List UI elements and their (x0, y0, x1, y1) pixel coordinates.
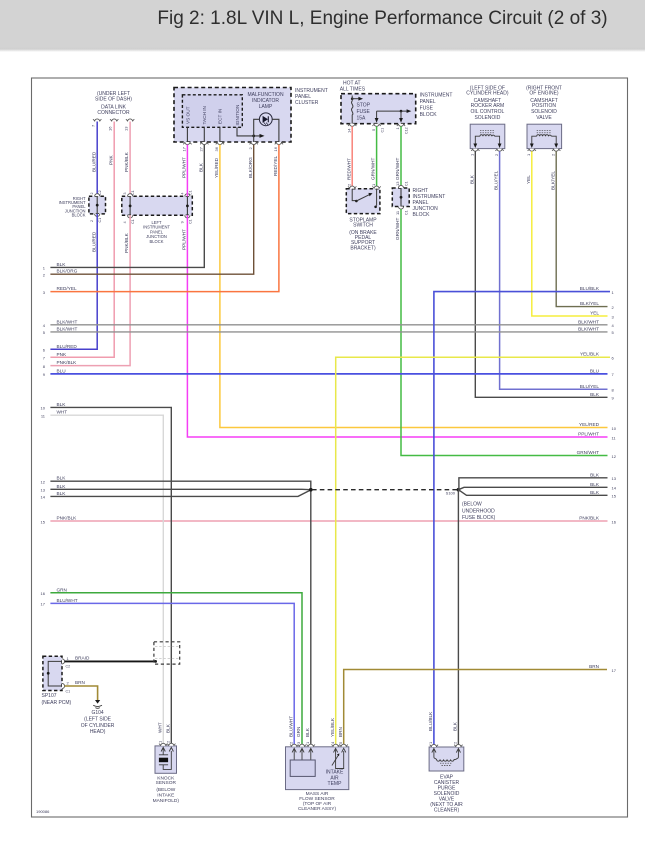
svg-text:VS OUT: VS OUT (186, 106, 191, 124)
wire BLK/WHT row 4 full width (50, 324, 607, 326)
wire BLK right row 14 from splice (458, 487, 607, 489)
svg-text:BLU/BLK: BLU/BLK (428, 711, 433, 731)
svg-text:SOLENOID: SOLENOID (474, 115, 500, 121)
diagram number 190086 (36, 809, 50, 814)
fuse block pin bump 5 (372, 124, 380, 127)
svg-text:2: 2 (453, 741, 458, 744)
svg-text:5: 5 (43, 330, 46, 335)
svg-text:2: 2 (494, 153, 499, 156)
svg-text:CLUSTER: CLUSTER (295, 100, 319, 106)
rocker arm solenoid coil symbol (473, 131, 501, 148)
svg-text:16: 16 (273, 146, 278, 151)
right IP JB center bottom pin labels 11 C1 (395, 210, 408, 215)
svg-text:BLK: BLK (165, 723, 170, 733)
wire RED/YEL cluster pin 16 to left row 3 (50, 145, 279, 292)
svg-text:5: 5 (371, 128, 376, 131)
svg-text:FUSE: FUSE (420, 106, 434, 112)
wire lamp right leg to pin 16 (272, 119, 279, 142)
stoplamp switch pin bump 1 (372, 186, 380, 189)
svg-text:5: 5 (612, 330, 615, 335)
svg-text:GRN/WHT: GRN/WHT (371, 157, 376, 180)
wire BRN SP107 to ground G104 (65, 680, 98, 700)
wire BRAID SP107 to knock sensor shield (65, 656, 156, 662)
svg-text:C1: C1 (188, 190, 192, 195)
cluster input label TACH IN (202, 106, 207, 124)
svg-text:2: 2 (550, 153, 555, 156)
svg-text:1: 1 (43, 266, 46, 271)
svg-text:BLK: BLK (590, 490, 600, 495)
MAF pin bump 2 (290, 744, 298, 747)
wire BLK cluster pin 27 to left row 1 (50, 145, 204, 268)
right IP JB center bottom pin bump (398, 207, 403, 210)
EVAP pin bump 2 (454, 744, 462, 747)
hot at all times label (340, 81, 366, 93)
cluster inner input box (182, 95, 242, 128)
wire GRN/WHT fuse 1 to right IP junction block (395, 126, 401, 188)
EVAP pin bump 1 (430, 744, 438, 747)
wire BLU/RED DLC-7 to right IP junction block (91, 122, 97, 197)
svg-text:BRACKET): BRACKET) (350, 245, 376, 251)
svg-text:13: 13 (123, 126, 128, 131)
malfunction indicator lamp symbol (259, 113, 272, 126)
knock sensor element (159, 747, 174, 769)
fuse bus dot and arrow to other circuits (351, 97, 363, 101)
right edge wire name labels (577, 286, 600, 669)
splice S100 dashed bus (312, 489, 458, 491)
svg-text:BLK/YEL: BLK/YEL (550, 171, 555, 190)
stoplamp switch label (349, 218, 377, 252)
cluster pin bump 36 (216, 142, 224, 145)
svg-text:2: 2 (43, 273, 46, 278)
svg-text:YEL/BLK: YEL/BLK (330, 717, 335, 737)
svg-text:GRN/WHT: GRN/WHT (395, 217, 400, 240)
cluster pin number 16 (273, 146, 278, 151)
position solenoid pin bump 1 (528, 149, 536, 152)
svg-text:PPL/WHT: PPL/WHT (182, 229, 187, 250)
svg-text:17: 17 (612, 668, 617, 673)
splice S100 location label (462, 502, 496, 522)
svg-text:SP107: SP107 (42, 693, 57, 699)
svg-text:1: 1 (428, 741, 433, 744)
svg-text:BLK/WHT: BLK/WHT (578, 319, 599, 324)
MAF internal element box and leads (290, 748, 315, 776)
svg-text:BLU: BLU (57, 368, 67, 373)
svg-text:BLU/WHT: BLU/WHT (57, 598, 78, 603)
svg-text:TACH IN: TACH IN (202, 106, 207, 124)
svg-text:C1: C1 (380, 128, 384, 133)
svg-text:10: 10 (41, 406, 46, 411)
SP107 pin bump 1 (62, 659, 65, 664)
svg-text:14: 14 (346, 128, 351, 133)
wire WHT left row 11 to knock sensor pin 1 (50, 415, 163, 746)
svg-text:1: 1 (612, 290, 615, 295)
svg-text:BLU: BLU (590, 368, 600, 373)
svg-text:ALL TIMES: ALL TIMES (340, 87, 366, 93)
svg-text:BLK: BLK (57, 491, 67, 496)
left IP JB bottom pin bump PPL/WHT (185, 215, 190, 218)
MAF pin number 4 (330, 741, 335, 744)
knock sensor label (153, 776, 180, 804)
EVAP solenoid coil symbol (432, 749, 461, 766)
svg-text:17: 17 (182, 146, 187, 151)
svg-text:BLK/YEL: BLK/YEL (580, 301, 599, 306)
svg-text:BLU/YEL: BLU/YEL (580, 384, 600, 389)
svg-text:UNDERHOOD: UNDERHOOD (462, 509, 495, 515)
svg-text:VALVE: VALVE (536, 115, 552, 121)
right IP JB center internal wire with dot (400, 188, 403, 207)
svg-text:2: 2 (248, 147, 253, 150)
wire BLK left row 13 to splice (50, 488, 310, 490)
left IP JB label (143, 220, 170, 244)
knock sensor pin number 1 (157, 740, 162, 743)
DLC pin number 16 (108, 126, 113, 131)
EVAP pin number 1 (428, 741, 433, 744)
left IP JB top pin labels 4 C1 (PPL/WHT) (180, 190, 192, 195)
svg-text:BLU/YEL: BLU/YEL (494, 170, 499, 190)
wire PPL/WHT cluster pin 17 to left IP junction block (182, 145, 188, 197)
fuse block pin number 14 (346, 128, 351, 133)
svg-text:C1: C1 (98, 218, 102, 223)
splice junction dot left (309, 488, 313, 492)
svg-text:4: 4 (612, 323, 615, 328)
wire GRN/WHT JB 11 down to right row 12 (395, 209, 607, 455)
svg-text:190086: 190086 (36, 809, 50, 814)
cluster pin bump 27 (200, 142, 208, 145)
svg-text:5: 5 (338, 741, 343, 744)
MAF pin number 1 (305, 741, 310, 744)
svg-text:FLOW SENSOR: FLOW SENSOR (299, 796, 335, 802)
svg-text:2: 2 (166, 740, 171, 743)
left IP JB internal wire PNK/BLK with dot (129, 196, 132, 215)
right IP junction block label (59, 196, 87, 218)
svg-text:14: 14 (612, 486, 617, 491)
right IP JB top pin labels 2 C2 (90, 190, 102, 195)
svg-text:BLU/RED: BLU/RED (91, 231, 96, 252)
svg-text:S100: S100 (446, 490, 456, 495)
wire PNK/BLK JB to left row 8 (50, 215, 130, 365)
wire BLK splice down to EVAP solenoid pin 2 (453, 490, 459, 747)
svg-text:YEL/RED: YEL/RED (214, 157, 219, 178)
svg-text:INTAKE: INTAKE (157, 793, 174, 799)
svg-text:1: 1 (470, 153, 475, 156)
fuse block pin labels 5 C1 (371, 128, 385, 133)
svg-text:YEL/RED: YEL/RED (579, 422, 600, 427)
svg-text:12: 12 (41, 480, 46, 485)
svg-text:C1: C1 (405, 181, 409, 186)
fuse block pin bump 14 (348, 124, 356, 127)
wire BLK solenoid 1 down to right row 9 (469, 151, 607, 397)
left IP JB pin bump top PPL/WHT (185, 194, 190, 197)
svg-text:2: 2 (67, 681, 70, 686)
svg-text:BLU/WHT: BLU/WHT (288, 716, 293, 737)
svg-text:BLK/ORG: BLK/ORG (248, 157, 253, 178)
left IP JB top pin labels 3 C1 (123, 190, 135, 195)
wire BLK/YEL solenoid valve 2 down to right row 2 (550, 151, 607, 306)
knock sensor pin bump 2 (167, 743, 175, 746)
wire BLK right row 13 from splice (459, 478, 608, 490)
cluster input label ECT IN (218, 109, 223, 124)
wire IGNITION internal run with arrow to other circuits (237, 127, 265, 138)
svg-text:BLOCK: BLOCK (420, 112, 438, 118)
svg-text:2: 2 (288, 741, 293, 744)
svg-text:IGNITION: IGNITION (235, 105, 240, 126)
svg-text:BLK: BLK (305, 727, 310, 737)
EVAP pin number 2 (453, 741, 458, 744)
left edge connector numbers 1-17 (41, 266, 46, 607)
svg-text:1: 1 (305, 741, 310, 744)
EVAP canister purge solenoid valve box (429, 747, 464, 771)
wire BLK right row 15 from splice (458, 490, 607, 496)
wire TACH IN stub to pin 27 (203, 127, 205, 142)
wire BLK left row 12 down to MAF sensor pin 1 through splice (50, 481, 310, 747)
MAF intake air temp thermistor (332, 748, 346, 768)
svg-text:3: 3 (43, 290, 46, 295)
splice S100 junction dot (457, 488, 461, 492)
wire YEL/BLK right row 6 to MAF sensor pin 4 (330, 357, 610, 747)
wire BLU row full width (50, 373, 607, 375)
svg-text:FUSE BLOCK): FUSE BLOCK) (462, 515, 496, 521)
EVAP solenoid label (430, 775, 463, 814)
svg-text:PNK/BLK: PNK/BLK (57, 360, 78, 365)
svg-text:YEL: YEL (526, 175, 531, 184)
svg-text:PNK/BLK: PNK/BLK (57, 516, 78, 521)
svg-text:C2: C2 (66, 665, 71, 669)
stoplamp switch pin bump 2 (348, 186, 356, 189)
knock sensor box (155, 746, 177, 773)
camshaft position solenoid valve box (527, 124, 562, 148)
svg-text:BLU/RED: BLU/RED (57, 344, 78, 349)
wire PPL/WHT JB down to right row 11 (182, 215, 608, 437)
cluster pin number 2 (248, 147, 253, 150)
svg-text:BLK: BLK (57, 476, 67, 481)
svg-text:YEL: YEL (590, 311, 599, 316)
fuse block internal feed line with right arrow (377, 109, 412, 113)
wire BLU/RED JB to left row 6 (50, 214, 97, 349)
instrument panel cluster outer box (174, 88, 291, 143)
svg-text:GRN: GRN (57, 587, 67, 592)
fuse block pin labels 1 C12 (395, 127, 409, 135)
svg-text:2: 2 (90, 220, 94, 222)
svg-text:WHT: WHT (157, 722, 162, 733)
camshaft position solenoid valve label (526, 86, 562, 121)
svg-text:BLK: BLK (590, 472, 600, 477)
svg-text:3: 3 (123, 193, 127, 195)
left IP JB bottom pin bump PNK/BLK (128, 215, 133, 218)
svg-text:BLU/BLK: BLU/BLK (580, 286, 600, 291)
svg-text:1: 1 (526, 153, 531, 156)
wire VS OUT stub to pin 17 (186, 127, 188, 142)
wire YEL/RED cluster pin 36 down to right row 10 (214, 145, 608, 428)
rocker arm solenoid pin bump 2 (495, 149, 503, 152)
svg-text:BLOCK: BLOCK (413, 212, 431, 218)
svg-text:HEAD): HEAD) (90, 729, 106, 735)
svg-text:STOP: STOP (357, 103, 371, 109)
DLC pin terminal 13 (126, 119, 134, 122)
stop fuse label (357, 103, 371, 122)
right instrument panel junction block (left) (89, 196, 106, 214)
svg-text:C1: C1 (405, 210, 409, 215)
DLC pin number 13 (123, 126, 128, 131)
svg-text:CLEANER ASSY): CLEANER ASSY) (298, 806, 337, 812)
SP107 pin bump 2 (62, 683, 65, 688)
left instrument panel junction block (122, 196, 193, 215)
right IP JB center top pin labels 13 C1 (395, 181, 408, 186)
svg-text:YEL/BLK: YEL/BLK (580, 352, 600, 357)
malfunction indicator lamp label (247, 92, 284, 110)
svg-text:OF ENGINE): OF ENGINE) (529, 91, 559, 97)
position solenoid pin number 1 (526, 153, 531, 156)
svg-text:4: 4 (180, 193, 184, 195)
svg-text:BLU/RED: BLU/RED (91, 151, 96, 172)
svg-text:16: 16 (612, 519, 617, 524)
wire RED/WHT fuse 14 to stoplamp switch (346, 126, 352, 188)
wire GRN left row 16 to MAF sensor pin 3 (50, 593, 302, 747)
stoplamp switch contacts and arm (352, 189, 377, 208)
svg-text:(BELOW: (BELOW (156, 787, 175, 793)
wire YEL solenoid valve 1 down to right row 3 (526, 151, 608, 316)
svg-text:OF CYLINDER: OF CYLINDER (81, 723, 115, 729)
cluster pin number 27 (199, 146, 204, 151)
svg-text:SIDE OF DASH): SIDE OF DASH) (95, 97, 132, 103)
svg-text:6: 6 (43, 348, 46, 353)
knock sensor pin number 2 (166, 740, 171, 743)
wire BLK/WHT row 5 full width (50, 331, 607, 333)
svg-text:12: 12 (612, 454, 617, 459)
SP107 pin labels 2 C1 (66, 681, 71, 694)
svg-text:C2: C2 (98, 190, 102, 195)
camshaft rocker arm oil control solenoid label (466, 86, 509, 121)
svg-text:BLK: BLK (57, 484, 67, 489)
instrument panel fuse block box (341, 94, 416, 124)
svg-text:PNK: PNK (108, 154, 113, 165)
right IP JB bottom pin bump (95, 214, 100, 217)
svg-text:4: 4 (330, 741, 335, 744)
wire BLU/YEL solenoid 2 down to right row 8 (494, 151, 608, 389)
svg-text:GRN: GRN (296, 727, 301, 737)
svg-text:BLK: BLK (57, 402, 67, 407)
instrument panel cluster label (295, 88, 328, 106)
stoplamp switch pin number 2 (346, 183, 351, 186)
left edge wire name labels (57, 262, 78, 603)
fuse block pin bump 1 (397, 124, 405, 127)
splice S100 label (446, 490, 456, 495)
stop fuse 15A element (351, 96, 353, 124)
svg-text:6: 6 (612, 356, 615, 361)
MAF pin bump 3 (298, 744, 306, 747)
MAF pin number 5 (338, 741, 343, 744)
fuse block junction dot on feed line (400, 110, 403, 113)
svg-text:13: 13 (395, 181, 400, 186)
svg-text:13: 13 (612, 476, 617, 481)
svg-text:BLK/WHT: BLK/WHT (578, 326, 599, 331)
svg-text:WHT: WHT (57, 410, 68, 415)
svg-text:15: 15 (41, 519, 46, 524)
svg-text:SWITCH: SWITCH (353, 223, 373, 229)
svg-text:4: 4 (43, 323, 46, 328)
MAF pin bump 4 (332, 744, 340, 747)
DLC pin terminal 7 (93, 119, 101, 122)
svg-text:1: 1 (157, 740, 162, 743)
svg-text:BRN: BRN (75, 680, 85, 685)
right IP JB internal wire with junction dot (96, 196, 99, 214)
svg-text:11: 11 (41, 414, 46, 419)
SP107 internal bus with junction dot (47, 661, 62, 686)
svg-text:10: 10 (612, 426, 617, 431)
cluster pin bump 17 (183, 142, 191, 145)
svg-text:PNK/BLK: PNK/BLK (124, 232, 129, 253)
svg-text:LAMP: LAMP (259, 104, 273, 110)
svg-text:7: 7 (91, 124, 96, 127)
MAF sensor label (298, 791, 337, 812)
svg-text:FUSE: FUSE (357, 109, 371, 115)
svg-text:TEMP: TEMP (328, 781, 343, 787)
svg-text:BLK/WHT: BLK/WHT (57, 326, 78, 331)
svg-text:2: 2 (90, 193, 94, 195)
svg-text:15A: 15A (357, 116, 367, 122)
svg-text:16: 16 (41, 591, 46, 596)
ground G104 symbol (93, 700, 102, 708)
svg-text:G104: G104 (91, 710, 103, 716)
svg-text:3: 3 (296, 741, 301, 744)
rocker arm solenoid pin bump 1 (471, 149, 479, 152)
cluster pin bump 16 (275, 142, 283, 145)
svg-text:2: 2 (346, 183, 351, 186)
svg-text:BLK: BLK (469, 174, 474, 184)
right IP JB top pin bump (95, 194, 100, 197)
connector DLC data link connector label (95, 91, 132, 116)
svg-text:27: 27 (199, 146, 204, 151)
right IP JB center top pin bump (398, 185, 403, 188)
wire PNK/BLK DLC-13 to left IP junction block (124, 122, 130, 197)
svg-text:3: 3 (612, 314, 615, 319)
cluster pin number 36 (214, 146, 219, 151)
wire BLU/BLK right row 1 to EVAP solenoid (428, 292, 610, 747)
svg-text:PPL/WHT: PPL/WHT (578, 432, 599, 437)
svg-text:PNK/BLK: PNK/BLK (124, 151, 129, 172)
svg-text:1: 1 (395, 127, 400, 130)
DLC pin terminal 16 (110, 119, 118, 122)
svg-text:C12: C12 (405, 127, 409, 134)
svg-text:BLK: BLK (198, 162, 203, 172)
svg-text:CYLINDER HEAD): CYLINDER HEAD) (466, 91, 509, 97)
wire lamp left leg to pin 2 (254, 119, 260, 142)
SP107 label (42, 693, 72, 706)
svg-text:RED/WHT: RED/WHT (346, 158, 351, 180)
cluster pin number 17 (182, 146, 187, 151)
SP107 pin labels 1 C2 (66, 656, 71, 669)
stoplamp switch box (346, 189, 380, 214)
MAF pin bump 5 (340, 744, 348, 747)
svg-text:(NEAR PCM): (NEAR PCM) (42, 700, 72, 706)
svg-text:14: 14 (41, 495, 46, 500)
svg-text:8: 8 (612, 388, 615, 393)
svg-text:PANEL: PANEL (420, 99, 436, 105)
instrument panel fuse block label (420, 93, 453, 119)
svg-text:SENSOR: SENSOR (156, 780, 177, 786)
svg-text:2: 2 (612, 305, 615, 310)
svg-text:BLOCK: BLOCK (150, 239, 164, 244)
svg-text:BLOCK: BLOCK (72, 213, 86, 218)
fuse block internal drop to pin 5 with down arrow (375, 111, 379, 123)
junction dot lamp to ignition feed (252, 135, 255, 138)
right IP JB bottom pin labels 2 C1 (90, 218, 102, 223)
svg-text:RED/YEL: RED/YEL (273, 156, 278, 176)
rocker arm solenoid pin number 1 (470, 153, 475, 156)
left IP JB bottom pin labels 9 C1 (180, 219, 192, 224)
svg-text:1: 1 (371, 183, 376, 186)
position solenoid coil symbol (530, 131, 558, 148)
svg-text:CLEANER): CLEANER) (434, 808, 460, 814)
